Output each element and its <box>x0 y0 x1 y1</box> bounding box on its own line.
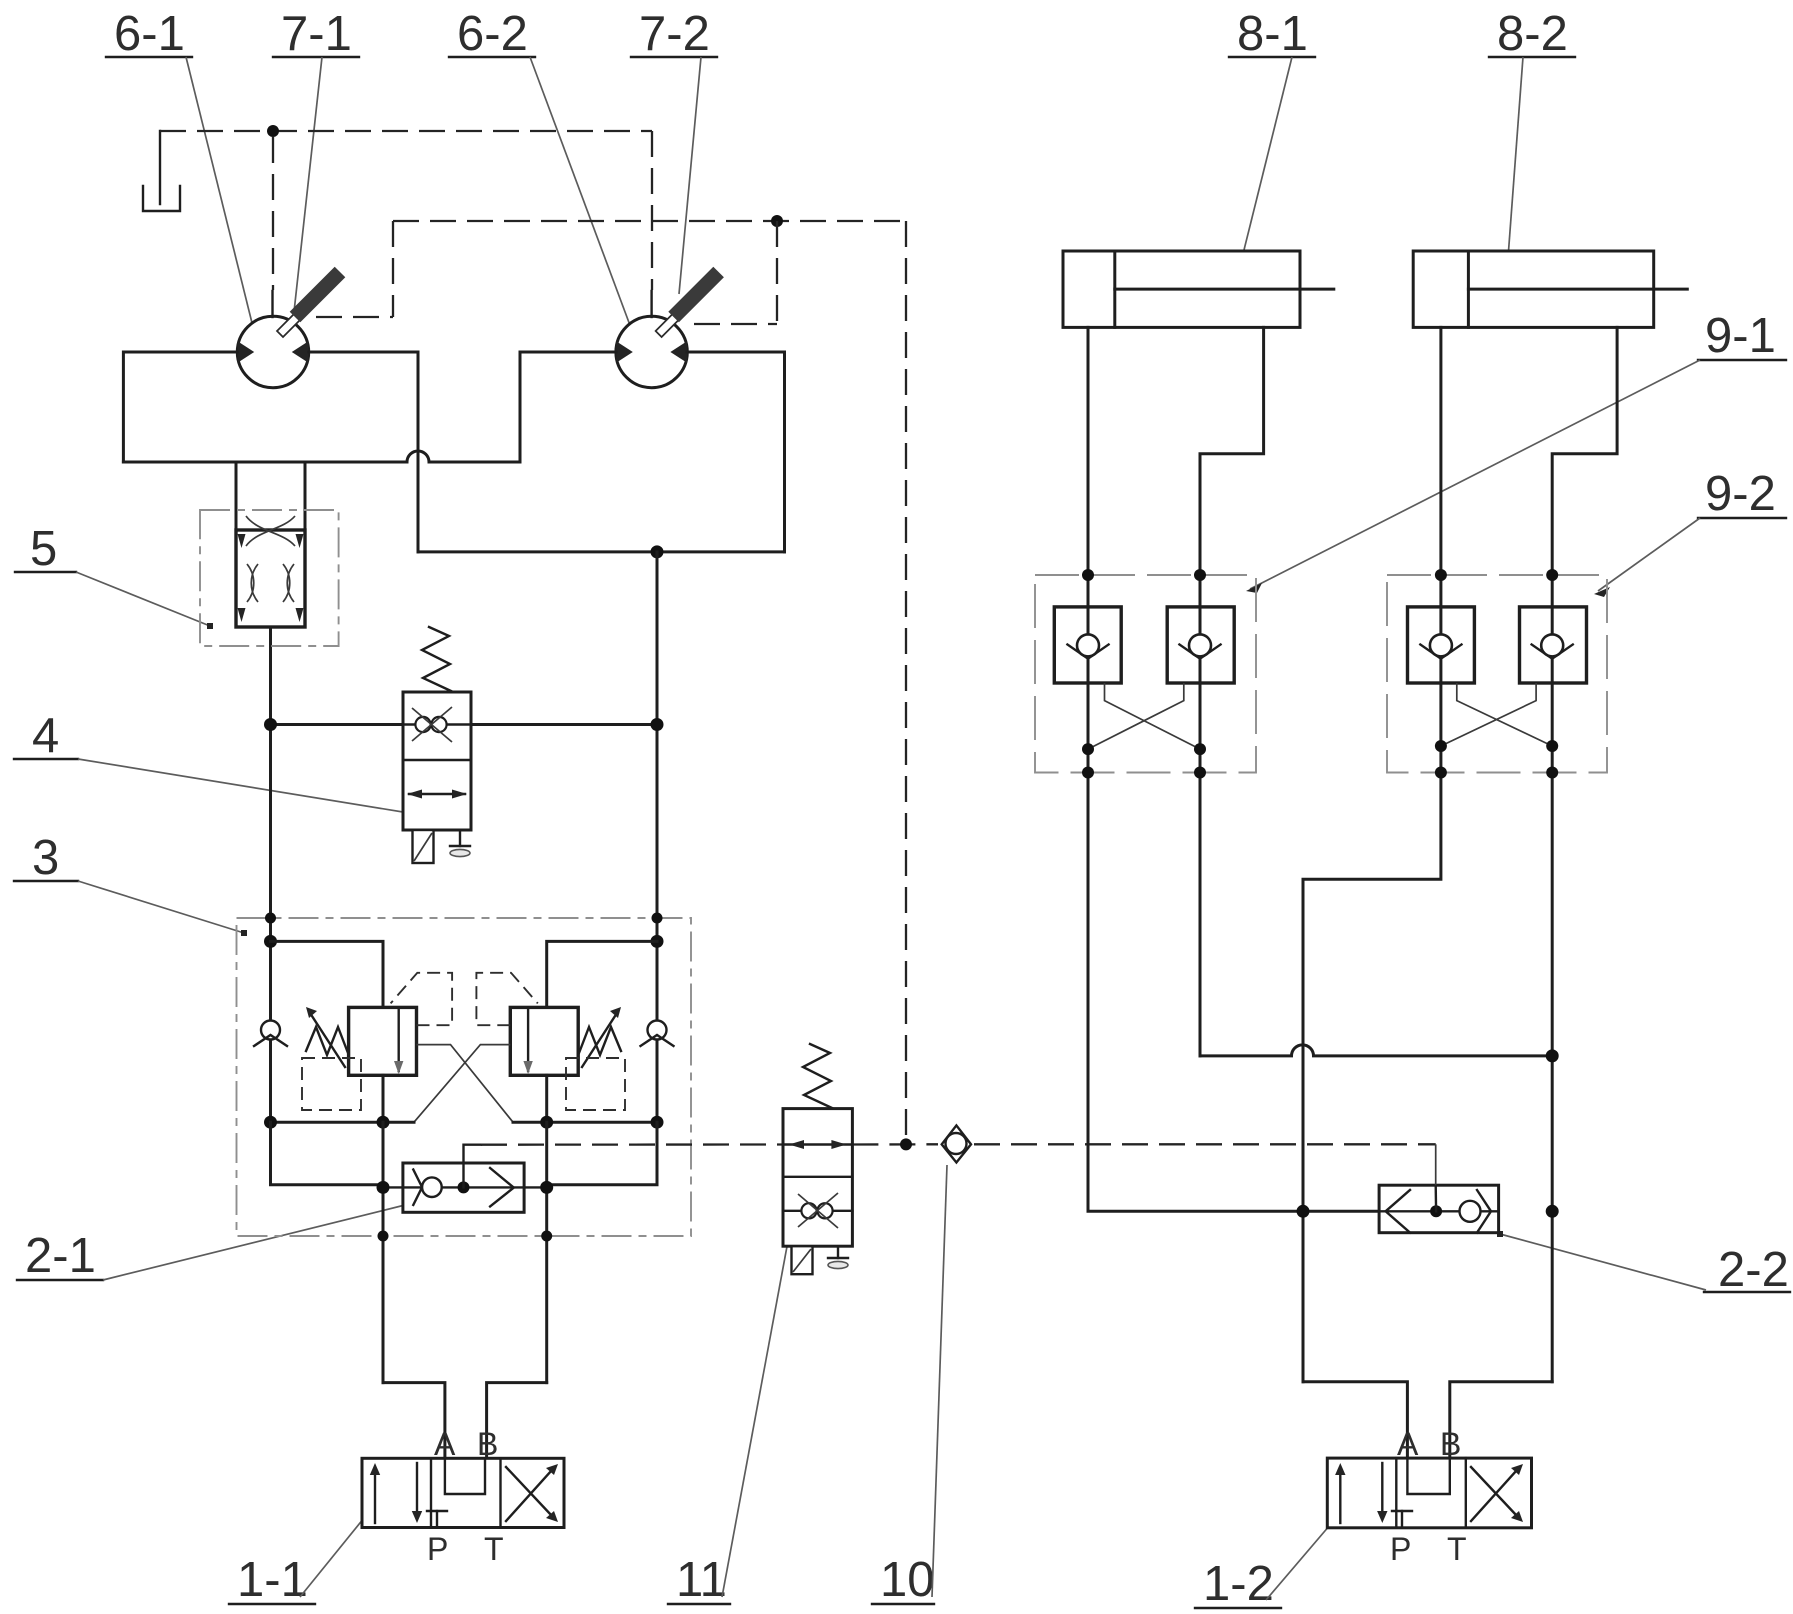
node: drain junction above motor 6-1 <box>267 125 279 137</box>
label 9-1 <box>1246 309 1786 593</box>
node: shuttle junction dots <box>377 1181 390 1194</box>
node: pilot branch to 7-2 <box>771 215 783 227</box>
label 10 <box>872 1165 947 1607</box>
relief valve right body <box>510 1007 578 1075</box>
wire: relief right outlet <box>545 1075 548 1122</box>
wire: right drop to valve 1-1 <box>545 1122 548 1382</box>
relief valve left pilot box (dashed) <box>302 1058 361 1110</box>
label 1-2 <box>1195 1522 1333 1611</box>
svg-text:2-1: 2-1 <box>25 1229 96 1283</box>
wire: cross link at y552 <box>418 550 785 553</box>
svg-text:1-1: 1-1 <box>237 1553 308 1607</box>
label 8-1 <box>1229 7 1315 258</box>
svg-text:11: 11 <box>676 1553 727 1607</box>
check valve pair 9-2 <box>1408 607 1587 746</box>
motor 6-1 <box>237 291 308 388</box>
wire: right rail inside block 3 <box>656 941 659 1122</box>
check valve left in block 3 <box>254 1021 287 1047</box>
wire: relief left outlet <box>382 1075 385 1122</box>
tank (vented reservoir) <box>143 131 180 211</box>
valve 4 drain stub right <box>450 830 470 857</box>
wire: 8-2 rod-side port down <box>1303 327 1441 1381</box>
node: junction at valve 2-2 right line <box>1546 1205 1559 1218</box>
wire: outer loop left <box>271 1122 384 1185</box>
svg-text:3: 3 <box>32 831 59 885</box>
valve 4 spring <box>422 627 451 691</box>
label 2-1 <box>17 1201 412 1283</box>
wire: 2-2 pilot up to dashed line <box>1434 1185 1437 1211</box>
wire: flow divider output down to valve 4 rail left <box>269 627 272 941</box>
wire: left rail inside block 3 <box>269 941 272 1122</box>
label 5 <box>15 522 213 629</box>
label 1-1 <box>229 1515 367 1607</box>
wire: 8-2 piston-side port stepped down <box>1552 327 1617 1381</box>
wire: left drop to valve 1-1 <box>382 1122 385 1382</box>
variable displacement actuator 7-2 <box>656 267 724 337</box>
svg-text:1-2: 1-2 <box>1203 1557 1274 1611</box>
svg-text:B: B <box>477 1426 498 1462</box>
wire: motor 6-1 right port down <box>309 352 418 552</box>
relief valve left body <box>349 1007 417 1075</box>
shuttle check valve 2-1 <box>383 1163 547 1212</box>
wire: long dashed pilot down the middle <box>905 221 907 1144</box>
label 2-2 <box>1497 1231 1790 1297</box>
node: top rail junction right <box>651 935 664 948</box>
svg-text:A: A <box>1397 1426 1419 1462</box>
wire: bottom rail left segment <box>271 1121 415 1124</box>
label 3 <box>14 831 247 936</box>
node: 9-2 dots <box>1435 569 1447 581</box>
node: block 3 bottom edge dots <box>378 1231 389 1242</box>
node: junction left of valve 4 <box>264 718 277 731</box>
valve 11 drain stub left <box>792 1246 813 1274</box>
label 4 <box>14 709 412 816</box>
relief valve right remote pilot hook <box>476 973 537 1025</box>
label 6-2 <box>449 7 637 339</box>
svg-text:9-2: 9-2 <box>1705 467 1776 521</box>
node: right rail crosses block 3 edge <box>652 913 663 924</box>
svg-text:7-2: 7-2 <box>639 7 710 61</box>
svg-text:A: A <box>434 1426 456 1462</box>
svg-text:T: T <box>1447 1531 1467 1567</box>
wire: top rail to relief valve right <box>547 941 657 1007</box>
check valve 10 <box>942 1125 971 1162</box>
node: pilot junction with vertical dashed line <box>900 1138 912 1150</box>
valve block 3 enclosure <box>237 918 692 1236</box>
wire: crossover rail with hop <box>1200 1045 1552 1056</box>
label 8-2 <box>1489 7 1575 258</box>
wire: branch down to flow divider 5 right <box>304 462 307 530</box>
relief valve left spring <box>306 1027 348 1055</box>
wire: branch down to flow divider 5 left <box>235 462 238 530</box>
valve 4 body <box>403 692 471 830</box>
relief valve left remote pilot hook <box>391 973 453 1025</box>
label 7-1 <box>273 7 359 312</box>
wire: dashed drop to motor 6-1 case <box>272 137 274 290</box>
svg-text:8-1: 8-1 <box>1237 7 1308 61</box>
pilot-check block 9-2 enclosure <box>1387 575 1607 773</box>
pilot dashed line across middle <box>481 1143 783 1145</box>
relief valve right pilot box (dashed) <box>566 1058 625 1110</box>
directional valve 1-1 <box>362 1458 564 1527</box>
valve 4 drain stub left <box>413 830 434 863</box>
wire: bottom rail right segment <box>513 1121 657 1124</box>
flow divider-combiner 5 enclosure <box>200 510 339 646</box>
svg-text:P: P <box>1390 1531 1411 1567</box>
relief valve right spring <box>579 1027 621 1055</box>
wire: shared return rail with hop over vertical <box>123 352 616 462</box>
svg-text:10: 10 <box>880 1553 935 1607</box>
flow divider-combiner 5 body <box>236 516 305 627</box>
wire: 8-1 rod-side port down to check block and valve 2-2 <box>1088 327 1379 1211</box>
svg-text:2-2: 2-2 <box>1718 1243 1789 1297</box>
directional valve 1-2 <box>1327 1458 1531 1528</box>
check valve right in block 3 <box>641 1021 674 1047</box>
wire: manifold T above valve 1-2 <box>1303 1382 1407 1458</box>
svg-text:8-2: 8-2 <box>1497 7 1568 61</box>
svg-text:T: T <box>484 1531 504 1567</box>
wire: down to valve 4 rail right <box>656 552 659 942</box>
wire: 2-1 pilot up and right <box>464 1145 482 1188</box>
check valve 2-2 <box>1379 1185 1499 1233</box>
pilot control dashed line (displacement control) <box>393 220 906 222</box>
svg-text:6-2: 6-2 <box>457 7 528 61</box>
valve 11 drain stub right <box>828 1246 848 1268</box>
node: junction of crossover and 8-2 piston line <box>1546 1049 1559 1062</box>
variable displacement actuator 7-1 <box>277 267 345 337</box>
label 7-2 <box>631 7 717 294</box>
svg-text:B: B <box>1440 1426 1461 1462</box>
motor 6-2 <box>616 291 687 388</box>
relief valve right adjust arrow <box>582 1007 621 1067</box>
svg-text:9-1: 9-1 <box>1705 309 1776 363</box>
valve 11 body <box>783 1109 852 1247</box>
pilot drain dashed line between motor cases <box>160 130 652 132</box>
pilot-check block 9-1 enclosure <box>1035 575 1256 773</box>
wire: top rail to relief valve left <box>271 941 384 1007</box>
svg-text:6-1: 6-1 <box>114 7 185 61</box>
node: 9-1 dots <box>1082 569 1094 581</box>
check valve pair 9-1 <box>1054 607 1234 749</box>
cylinder 8-2 <box>1413 251 1687 327</box>
wire: outer loop right <box>547 1122 657 1185</box>
wire: motor 6-2 right port down <box>687 352 785 552</box>
crossed pilot line right-to-left <box>414 1045 510 1123</box>
node: junction at valve 2-2 left line <box>1297 1205 1310 1218</box>
node: junction at 657,552 <box>651 545 664 558</box>
node: bottom rail dots <box>264 1116 277 1129</box>
wire: dashed drop to 7-1 actuator <box>392 221 394 317</box>
svg-text:P: P <box>427 1531 448 1567</box>
wire: dashed drop to motor 6-2 case <box>651 131 653 290</box>
valve 11 spring <box>803 1044 832 1108</box>
svg-text:5: 5 <box>30 522 57 576</box>
svg-text:4: 4 <box>32 709 59 763</box>
node: top rail junction left <box>264 935 277 948</box>
cylinder 8-1 <box>1063 251 1334 327</box>
node: junction right of valve 4 <box>651 718 664 731</box>
wire: dashed drop to 7-2 actuator <box>776 221 778 324</box>
svg-text:7-1: 7-1 <box>281 7 352 61</box>
label 6-1 <box>106 7 258 338</box>
label 9-2 <box>1594 467 1786 597</box>
node: left rail crosses block 3 edge <box>265 913 276 924</box>
wire: valve 4 horizontal rail <box>271 723 658 726</box>
wire: 8-1 piston-side port stepped down <box>1200 327 1264 1056</box>
wire: motor 6-1 left port <box>123 352 237 462</box>
crossed pilot line left-to-right <box>417 1045 514 1123</box>
wire: manifold T above valve 1-1 <box>383 1383 445 1459</box>
relief valve left adjust arrow <box>306 1007 345 1067</box>
label 11 <box>668 1238 791 1607</box>
